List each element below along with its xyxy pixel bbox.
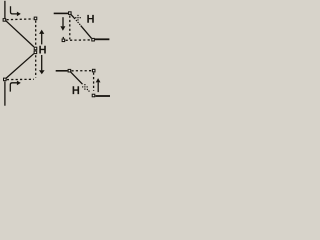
fig3 L-arrow head xyxy=(17,81,21,86)
fig2 diagonal wire solid xyxy=(81,26,92,39)
fig3 dashed horizontal wire xyxy=(7,78,34,80)
fig2 dotted diagonal segment xyxy=(76,21,80,26)
fig1 vertical axis wire xyxy=(4,1,6,18)
label H fig4 xyxy=(73,86,80,94)
fig1 L-shaped arrow xyxy=(11,6,18,14)
background xyxy=(0,0,111,107)
node A2 xyxy=(68,11,72,15)
fig2 dashed horizontal wire xyxy=(66,39,91,41)
fig2 dotted cross marker xyxy=(75,15,81,21)
fig2 diagonal wire upper xyxy=(71,14,75,19)
fig4 dotted cross marker xyxy=(82,84,88,90)
fig1 dashed horizontal wire xyxy=(7,18,34,21)
fig4 up arrow xyxy=(97,82,99,92)
fig2 stub above node B2 xyxy=(62,37,64,39)
fig4 dotted diagonal dots xyxy=(87,89,90,92)
node C2 xyxy=(91,38,95,42)
fig3 L-shaped arrow xyxy=(10,83,17,92)
fig1 dashed vertical wire xyxy=(35,21,37,46)
fig3 dashed vertical wire xyxy=(35,55,37,78)
node A3 xyxy=(3,78,7,82)
label H fig1 xyxy=(39,46,45,54)
fig4 diagonal wire solid xyxy=(71,72,83,84)
node B2 xyxy=(62,39,66,43)
fig1 up arrow xyxy=(41,34,43,45)
fig2 horizontal wire right xyxy=(95,38,110,40)
fig1 L-arrow head xyxy=(17,12,21,17)
node C3 xyxy=(34,51,38,55)
fig3 down arrow xyxy=(41,55,43,70)
fig3 vertical axis wire xyxy=(4,81,6,105)
node A4 xyxy=(68,69,72,73)
node C4 xyxy=(92,94,96,98)
fig4 dashed vertical wire xyxy=(93,73,95,91)
fig4 dashed horizontal wire xyxy=(71,70,91,72)
fig2 horizontal axis wire xyxy=(54,12,68,14)
node A1 xyxy=(3,18,7,22)
fig4 horizontal axis wire xyxy=(56,70,68,72)
label H fig2 xyxy=(87,15,94,23)
node B4 xyxy=(92,69,96,73)
fig4 horizontal wire bottom xyxy=(95,95,110,97)
fig1 diagonal wire xyxy=(6,21,34,47)
node C1 xyxy=(34,47,38,51)
fig2 down arrow xyxy=(62,17,64,26)
fig2 dashed vertical wire xyxy=(69,16,71,40)
fig3 diagonal wire xyxy=(6,54,34,78)
node B1 xyxy=(34,17,38,21)
